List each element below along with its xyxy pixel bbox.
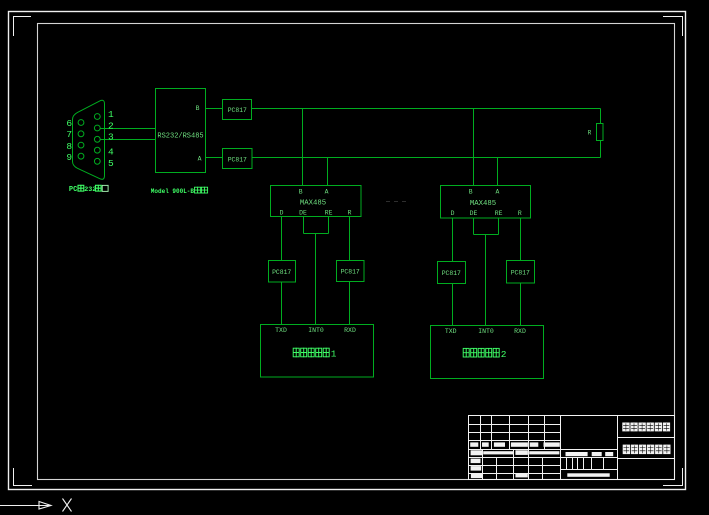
svg-text:INT0: INT0 xyxy=(308,327,324,334)
svg-text:2: 2 xyxy=(501,349,507,360)
svg-text:5: 5 xyxy=(108,158,114,169)
svg-text:PC: PC xyxy=(69,186,77,194)
svg-text:RS232/RS485: RS232/RS485 xyxy=(157,133,203,141)
svg-text:Model 900L-B: Model 900L-B xyxy=(151,188,195,195)
svg-text:INT0: INT0 xyxy=(478,328,494,335)
svg-text:6: 6 xyxy=(66,118,72,129)
svg-text:3: 3 xyxy=(108,131,114,142)
svg-text:R: R xyxy=(588,129,592,136)
svg-text:R: R xyxy=(518,210,522,217)
svg-text:1: 1 xyxy=(331,349,337,360)
svg-text:PC817: PC817 xyxy=(341,269,360,276)
svg-text:8: 8 xyxy=(66,141,72,152)
svg-text:RXD: RXD xyxy=(514,328,526,335)
svg-text:232: 232 xyxy=(84,186,96,194)
svg-text:A: A xyxy=(325,189,329,196)
svg-text:TXD: TXD xyxy=(275,327,287,334)
svg-text:DE: DE xyxy=(470,210,478,217)
svg-text:B: B xyxy=(196,105,200,112)
svg-text:2: 2 xyxy=(108,120,114,131)
svg-text:D: D xyxy=(451,210,455,217)
svg-text:MAX485: MAX485 xyxy=(300,199,326,207)
svg-text:PC817: PC817 xyxy=(228,107,247,114)
svg-text:B: B xyxy=(469,189,473,196)
svg-text:4: 4 xyxy=(108,147,114,158)
svg-text:PC817: PC817 xyxy=(511,269,530,276)
svg-text:A: A xyxy=(198,155,202,162)
svg-text:PC817: PC817 xyxy=(442,270,461,277)
svg-text:R: R xyxy=(348,210,352,217)
svg-text:7: 7 xyxy=(66,129,72,140)
svg-text:A: A xyxy=(495,189,499,196)
svg-text:RXD: RXD xyxy=(344,327,356,334)
svg-text:B: B xyxy=(299,189,303,196)
svg-text:RE: RE xyxy=(325,210,333,217)
svg-text:MAX485: MAX485 xyxy=(470,200,496,208)
svg-text:DE: DE xyxy=(299,210,307,217)
svg-text:D: D xyxy=(280,210,284,217)
svg-text:RE: RE xyxy=(495,210,503,217)
svg-text:9: 9 xyxy=(66,152,72,163)
svg-text:PC817: PC817 xyxy=(228,157,247,164)
svg-text:1: 1 xyxy=(108,109,114,120)
svg-text:PC817: PC817 xyxy=(272,269,291,276)
svg-text:TXD: TXD xyxy=(445,328,457,335)
